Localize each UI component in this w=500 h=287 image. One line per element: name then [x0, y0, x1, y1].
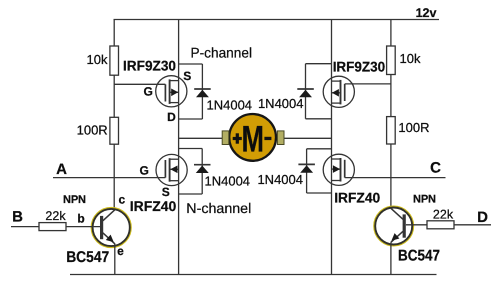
wire left bias chain top — [113, 20, 115, 47]
svg-text:1N4004: 1N4004 — [257, 172, 303, 187]
wire B — [11, 226, 39, 228]
wire base left — [66, 226, 100, 228]
svg-text:c: c — [118, 193, 125, 207]
svg-text:M: M — [242, 119, 265, 160]
svg-text:C: C — [430, 160, 441, 177]
wire emitter right — [390, 242, 392, 274]
svg-text:IRF9Z30: IRF9Z30 — [333, 58, 386, 74]
resistor 22k right — [427, 221, 454, 229]
wire gate upper-right — [345, 83, 391, 85]
svg-text:100R: 100R — [77, 123, 108, 138]
svg-text:22k: 22k — [433, 208, 454, 222]
wire diode loop upper-right top — [306, 63, 332, 65]
wire D — [454, 224, 491, 226]
svg-text:1N4004: 1N4004 — [205, 174, 251, 189]
wire left bias chain lower — [113, 144, 115, 210]
svg-text:10k: 10k — [400, 51, 421, 66]
wire gate upper-left — [114, 83, 165, 85]
wire diode loop upper-right bottom — [306, 118, 332, 120]
svg-text:BC547: BC547 — [66, 249, 109, 266]
svg-text:A: A — [56, 161, 67, 178]
svg-text:G: G — [144, 84, 153, 98]
wire C — [345, 177, 446, 179]
svg-text:G: G — [140, 163, 149, 177]
wire diode loop lower-left bottom — [179, 193, 203, 195]
svg-text:10k: 10k — [87, 52, 108, 67]
svg-text:100R: 100R — [398, 120, 429, 135]
wire diode loop upper-left bottom — [179, 118, 203, 120]
motor M wire right — [284, 137, 332, 139]
transistor Q4 IRF9Z30 upper-right mosfet — [323, 76, 354, 107]
wire right bias chain lower — [390, 144, 392, 209]
motor M — [222, 114, 284, 161]
transistor Q1 IRF9Z30 upper-left mosfet — [156, 76, 187, 107]
svg-text:1N4004: 1N4004 — [207, 98, 253, 113]
wire left bias chain middle — [113, 75, 115, 117]
transistor Q6 BC547 right — [375, 207, 413, 245]
svg-text:S: S — [183, 69, 191, 83]
resistor 22k left — [39, 223, 66, 231]
wire right bias chain top — [390, 20, 392, 47]
motor M wire left — [179, 137, 223, 139]
diode D4 1N4004 lower-right — [298, 149, 315, 193]
wire ground rail bottom — [70, 274, 437, 276]
svg-text:D: D — [167, 110, 176, 124]
wire emitter left — [114, 244, 116, 275]
svg-text:D: D — [477, 209, 488, 226]
svg-text:IRF9Z30: IRF9Z30 — [123, 58, 176, 74]
transistor Q5 IRFZ40 lower-right mosfet — [323, 154, 354, 185]
svg-text:N-channel: N-channel — [186, 200, 251, 216]
resistor 10k right — [387, 46, 396, 75]
transistor Q2 IRFZ40 lower-left mosfet — [156, 154, 187, 185]
wire 12v top rail — [114, 19, 440, 21]
svg-text:NPN: NPN — [413, 194, 436, 206]
svg-text:1N4004: 1N4004 — [258, 96, 304, 111]
svg-text:12v: 12v — [416, 6, 437, 20]
transistor Q3 BC547 left — [92, 208, 131, 247]
svg-text:B: B — [12, 209, 23, 226]
svg-text:P-channel: P-channel — [191, 45, 253, 61]
wire A — [53, 177, 165, 179]
diode D2 1N4004 lower-left — [194, 149, 211, 195]
wire base right — [406, 224, 427, 226]
wire mosfet column right — [331, 20, 333, 275]
svg-text:e: e — [117, 244, 124, 258]
svg-text:NPN: NPN — [63, 194, 86, 206]
resistor 100R left — [110, 117, 119, 144]
wire right bias chain middle — [390, 75, 392, 117]
wire diode loop upper-left top — [179, 63, 203, 65]
svg-text:b: b — [77, 212, 84, 226]
svg-text:IRFZ40: IRFZ40 — [334, 190, 380, 206]
resistor 100R right — [387, 117, 396, 144]
wire diode loop lower-right bottom — [307, 192, 332, 194]
resistor 10k left — [110, 46, 119, 75]
svg-text:22k: 22k — [45, 209, 66, 223]
diode D1 1N4004 upper-left — [194, 64, 211, 119]
wire mosfet column left — [178, 20, 180, 275]
svg-text:S: S — [162, 185, 170, 199]
svg-text:BC547: BC547 — [398, 248, 440, 265]
wire diode loop lower-left top — [179, 148, 203, 150]
wire diode loop lower-right top — [307, 148, 332, 150]
svg-text:IRFZ40: IRFZ40 — [130, 198, 177, 214]
diode D3 1N4004 upper-right — [297, 64, 314, 119]
